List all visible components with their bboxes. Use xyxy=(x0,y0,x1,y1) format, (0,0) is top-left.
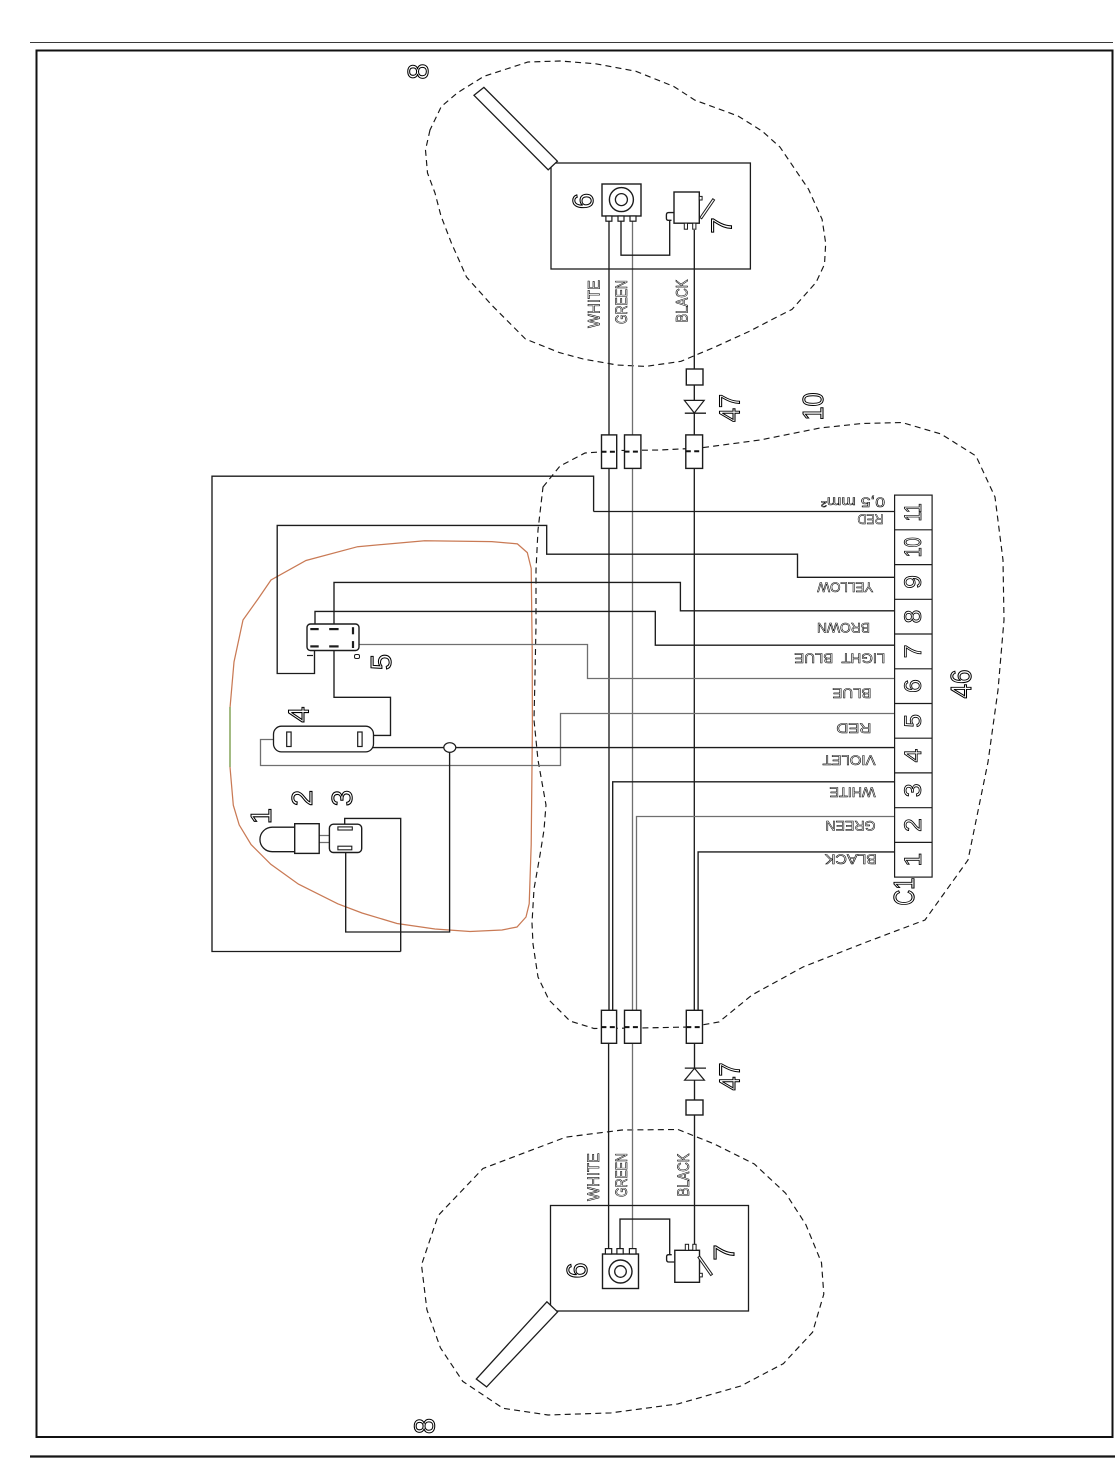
svg-text:6: 6 xyxy=(568,193,600,209)
svg-text:RED: RED xyxy=(836,720,871,735)
wire BLACK segment square-diode xyxy=(693,385,695,435)
terminal strip C1 / 46 xyxy=(895,495,933,877)
svg-text:8: 8 xyxy=(900,610,927,624)
svg-text:GREEN: GREEN xyxy=(613,1153,631,1197)
bottom rule xyxy=(30,1455,1115,1457)
bottom lever stalk xyxy=(476,1302,557,1387)
svg-text:47: 47 xyxy=(715,394,747,422)
svg-text:WHITE: WHITE xyxy=(586,280,604,328)
svg-text:4: 4 xyxy=(284,706,316,722)
upper inline connectors (3) xyxy=(602,435,617,469)
svg-text:0,5 mm²: 0,5 mm² xyxy=(820,495,885,510)
wire GREEN (to bottom lamp) xyxy=(632,1043,634,1249)
diode 47 (bottom) xyxy=(685,1068,706,1080)
bulb 1 xyxy=(260,827,295,852)
connector bars between bulb 2 and holder 3 xyxy=(319,836,329,843)
svg-text:RED: RED xyxy=(857,512,883,527)
svg-text:5: 5 xyxy=(366,654,398,670)
wire BROWN relay to pin 8 xyxy=(334,582,895,628)
green segment on loom outline xyxy=(229,707,231,767)
top handlebar unit box xyxy=(551,163,750,269)
svg-text:2: 2 xyxy=(900,818,927,832)
wire RED fuse left to pin 5 xyxy=(261,714,895,766)
fuse 4 xyxy=(274,726,374,752)
component box (headlamp unit, open rectangle) xyxy=(212,476,594,951)
bulb base 2 xyxy=(295,824,320,854)
wire BLACK pin 1 branch xyxy=(698,852,895,1011)
wire GREEN (middle run) xyxy=(632,468,634,1010)
wire RED 0,5mm2 to pin 11 xyxy=(594,511,895,513)
wire GREEN pin 2 branch xyxy=(637,817,895,1011)
splice junction circle xyxy=(444,743,456,753)
svg-text:7: 7 xyxy=(709,1244,741,1260)
svg-text:1: 1 xyxy=(246,808,278,824)
svg-text:46: 46 xyxy=(946,670,978,699)
svg-text:4: 4 xyxy=(900,749,927,763)
orange wiring-loom outline xyxy=(230,541,532,932)
wire jog bottom lamp pin2 to switch 7 xyxy=(620,1219,670,1254)
inline square on black wire (bottom) xyxy=(686,1100,703,1115)
svg-text:LIGHT BLUE: LIGHT BLUE xyxy=(794,651,885,666)
hook at bottom switch xyxy=(667,1255,675,1262)
svg-text:BLACK: BLACK xyxy=(675,1154,693,1197)
svg-text:7: 7 xyxy=(900,645,927,659)
svg-text:8: 8 xyxy=(410,1418,442,1434)
wire relay to fuse xyxy=(334,651,391,736)
svg-text:10: 10 xyxy=(798,393,830,421)
svg-text:GREEN: GREEN xyxy=(613,280,631,324)
wire BLACK (middle run) xyxy=(693,468,695,1010)
svg-text:11: 11 xyxy=(900,503,927,521)
wire WHITE pin 3 branch xyxy=(613,782,895,1011)
svg-text:BLACK: BLACK xyxy=(673,280,691,323)
wire WHITE (top lamp to connector) xyxy=(608,221,610,435)
svg-text:WHITE: WHITE xyxy=(830,785,876,800)
switch 7 (bottom) xyxy=(675,1244,713,1282)
wire splice down to bulb holder 3 xyxy=(346,748,450,932)
bulb holder 3 xyxy=(329,824,361,852)
wire BLUE relay right to pin 6 xyxy=(359,645,895,679)
wire bulb holder 3 top to chassis xyxy=(345,818,401,951)
bottom handlebar unit box xyxy=(551,1206,749,1312)
dashed harness blob 8 (top handlebar group) xyxy=(426,61,826,366)
wire WHITE (middle run) xyxy=(608,468,610,1010)
wire YELLOW relay to pin 9 xyxy=(277,525,894,673)
blob-10 dash through upper connectors xyxy=(602,450,703,453)
svg-text:47: 47 xyxy=(715,1063,747,1091)
top rule xyxy=(30,42,1113,44)
dashed harness blob 8 (bottom handlebar group) xyxy=(422,1130,824,1416)
svg-text:YELLOW: YELLOW xyxy=(817,580,873,595)
svg-text:VIOLET: VIOLET xyxy=(823,753,876,768)
svg-text:9: 9 xyxy=(900,575,927,589)
wire VIOLET fuse right via splice to pin 4 xyxy=(362,743,895,747)
wire WHITE (to bottom lamp) xyxy=(608,1043,610,1249)
svg-text:8: 8 xyxy=(403,63,435,79)
svg-text:WHITE: WHITE xyxy=(585,1153,603,1201)
svg-text:7: 7 xyxy=(707,217,739,233)
pilot lamp 6 (top) xyxy=(602,184,641,221)
svg-text:2: 2 xyxy=(287,790,319,806)
svg-text:GREEN: GREEN xyxy=(826,818,876,833)
svg-text:1: 1 xyxy=(900,853,927,867)
svg-text:6: 6 xyxy=(562,1262,594,1278)
wire BLACK segments (to bottom switch) xyxy=(694,1043,696,1245)
svg-text:6: 6 xyxy=(900,679,927,693)
svg-text:C1: C1 xyxy=(889,878,921,906)
inline square on black wire (top) xyxy=(686,369,703,385)
switch 7 (top) xyxy=(674,192,715,229)
svg-text:3: 3 xyxy=(900,783,927,797)
blob-10 dash through lower connectors xyxy=(601,1026,702,1028)
pilot lamp 6 (bottom) xyxy=(603,1249,639,1289)
wire jog top lamp pin2 to switch 7 xyxy=(621,221,670,256)
wire LIGHT BLUE relay to pin 7 xyxy=(315,611,895,645)
diode 47 (top) xyxy=(684,400,706,413)
hook at top switch xyxy=(666,213,674,221)
svg-text:10: 10 xyxy=(900,537,927,557)
lower inline connectors (3) xyxy=(601,1010,616,1043)
wire GREEN (top lamp to connector) xyxy=(632,221,634,435)
svg-text:BLACK: BLACK xyxy=(825,851,877,866)
svg-text:BROWN: BROWN xyxy=(817,620,870,635)
flasher relay 5 xyxy=(307,624,360,659)
svg-text:5: 5 xyxy=(900,714,927,728)
top lever stalk xyxy=(474,87,557,169)
svg-text:BLUE: BLUE xyxy=(832,686,871,701)
wire BLACK (top switch to connector) xyxy=(693,230,695,369)
svg-text:3: 3 xyxy=(327,790,359,806)
dashed main-harness blob 10 xyxy=(532,423,1004,1029)
